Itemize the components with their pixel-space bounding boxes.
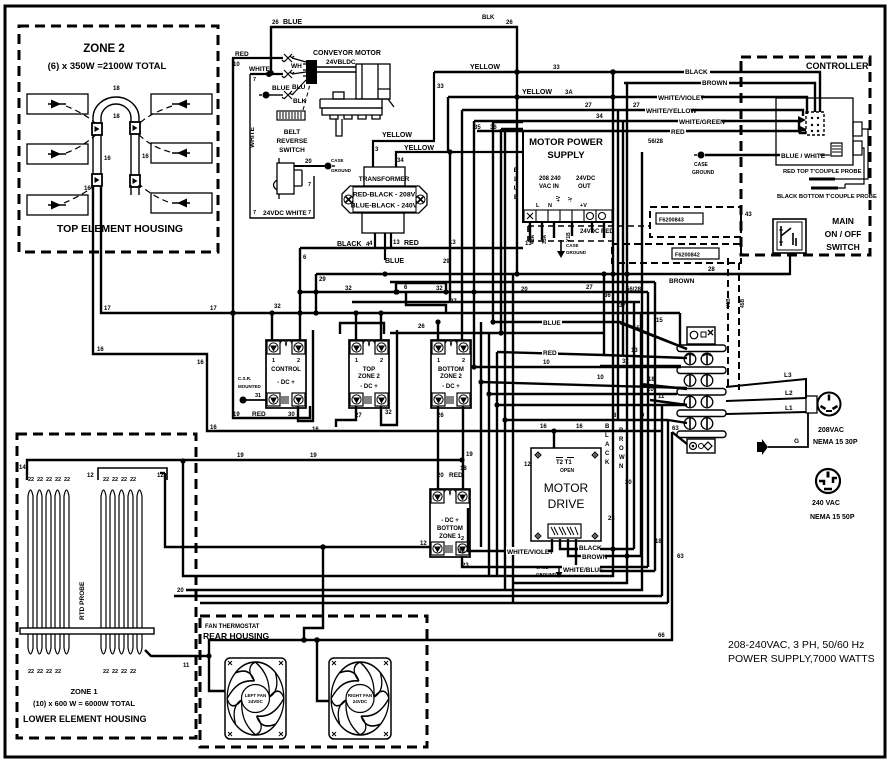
svg-text:F6200843: F6200843: [659, 218, 684, 224]
ground arrow ps: [560, 240, 562, 254]
svg-text:RED: RED: [543, 350, 557, 357]
svg-text:YELLOW: YELLOW: [470, 64, 500, 71]
svg-text:22: 22: [112, 669, 118, 675]
svg-text:22: 22: [55, 477, 61, 483]
svg-text:WHITE/BLUE: WHITE/BLUE: [563, 567, 604, 574]
svg-text:16: 16: [142, 154, 149, 160]
svg-text:63: 63: [677, 554, 684, 560]
svg-text:11: 11: [183, 663, 190, 669]
svg-text:ZONE 2: ZONE 2: [83, 43, 125, 55]
svg-text:18: 18: [460, 466, 467, 472]
motor power supply PS1: [523, 131, 613, 222]
svg-text:208VAC: 208VAC: [818, 427, 844, 434]
svg-text:16: 16: [97, 347, 104, 353]
svg-text:208 240: 208 240: [539, 176, 561, 182]
svg-text:N: N: [548, 203, 552, 209]
svg-text:24VDC RED: 24VDC RED: [580, 229, 614, 235]
svg-text:24VBLDC: 24VBLDC: [326, 59, 356, 66]
svg-text:16: 16: [540, 424, 547, 430]
svg-text:BLACK BOTTOM T'COUPLE PROBE: BLACK BOTTOM T'COUPLE PROBE: [777, 194, 877, 200]
svg-text:20: 20: [305, 159, 312, 165]
svg-text:BLACK: BLACK: [337, 241, 362, 248]
wire RED into contact: [232, 57, 283, 59]
motor connector block: [306, 60, 317, 84]
svg-text:35: 35: [474, 125, 481, 131]
svg-text:7: 7: [253, 77, 256, 83]
plug P2 240VAC NEMA 15 50P: [816, 469, 840, 493]
svg-text:RIGHT FAN: RIGHT FAN: [348, 693, 372, 698]
svg-text:34: 34: [397, 158, 404, 164]
svg-text:ZONE 2: ZONE 2: [440, 374, 462, 380]
svg-text:ZONE 1: ZONE 1: [439, 534, 461, 540]
wire WHITE into contact: [250, 73, 283, 75]
svg-text:GROUND: GROUND: [331, 168, 352, 173]
svg-text:BLUE: BLUE: [272, 85, 290, 92]
terminal bar 3: [677, 389, 726, 396]
terminal block feeds: [620, 323, 687, 349]
vertical bundle v1: [449, 152, 451, 302]
heating element E4: [151, 94, 212, 114]
terminal block bottom box: [687, 439, 715, 453]
svg-text:19: 19: [466, 452, 473, 458]
svg-text:17: 17: [210, 306, 217, 312]
svg-text:BLUE: BLUE: [543, 320, 561, 327]
svg-text:56/28: 56/28: [648, 139, 664, 145]
relay k3 bottom hooks: [438, 406, 463, 490]
svg-text:17: 17: [104, 306, 111, 312]
mps strip stubs: [530, 222, 572, 240]
wire switch to ground: [294, 165, 325, 167]
dashed route from PS: [528, 226, 650, 241]
svg-text:CONTROL: CONTROL: [271, 367, 301, 373]
svg-text:MOTOR: MOTOR: [544, 481, 589, 495]
wire 20 bottom: [174, 595, 662, 597]
svg-text:-V: -V: [568, 196, 574, 202]
transformer lead red: [390, 233, 392, 248]
svg-text:2: 2: [380, 358, 383, 364]
belt reverse switch label box (barcode): [277, 111, 305, 120]
main on/off switch S1: [773, 219, 806, 253]
svg-text:WHITE/GREEN: WHITE/GREEN: [679, 119, 725, 126]
belt reverse switch S2: [274, 158, 303, 199]
svg-text:GROUND: GROUND: [566, 250, 587, 255]
relay K3 BOTTOM ZONE 2: [431, 340, 471, 408]
right vertical bundle: [183, 72, 613, 576]
wire 26 BLUE top: [271, 27, 517, 274]
svg-text:24VDC: 24VDC: [353, 699, 368, 704]
bus y302: [352, 301, 640, 303]
wire pair connector to motor: [317, 67, 356, 72]
transformer lead blue: [384, 233, 386, 260]
svg-text:18: 18: [113, 86, 120, 92]
label BLUE / WHITE: [780, 150, 822, 159]
case ground dot conveyor: [325, 163, 332, 170]
svg-text:12: 12: [524, 462, 531, 468]
svg-text:37: 37: [619, 303, 626, 309]
svg-text:F6200842: F6200842: [675, 253, 700, 259]
wire T2 tap: [553, 431, 555, 448]
svg-text:27: 27: [585, 103, 592, 109]
wire zone2 left drop double: [93, 135, 101, 174]
relay K1 CONTROL: [266, 340, 306, 408]
svg-text:22: 22: [37, 669, 43, 675]
svg-text:BROWN: BROWN: [702, 80, 728, 87]
svg-text:L1: L1: [785, 405, 793, 412]
wire red y352: [497, 352, 687, 358]
svg-text:43: 43: [745, 212, 752, 218]
svg-text:29: 29: [443, 259, 450, 265]
controller connector J1: [806, 112, 824, 135]
transformer secondary yellow1: [373, 72, 434, 167]
transformer T1: [364, 167, 405, 186]
svg-text:- DC +: - DC +: [277, 380, 295, 386]
connector zone2 right lower: [130, 175, 140, 187]
svg-text:22: 22: [28, 669, 34, 675]
svg-text:RTD PROBE: RTD PROBE: [79, 581, 86, 620]
svg-text:29: 29: [319, 277, 326, 283]
connector zone2 right upper: [130, 122, 140, 134]
svg-text:24VDC: 24VDC: [248, 699, 263, 704]
svg-text:20: 20: [647, 387, 654, 393]
drive bottom terminal strip: [548, 524, 581, 538]
svg-text:SUPPLY: SUPPLY: [547, 150, 585, 161]
svg-text:22: 22: [103, 477, 109, 483]
thermocouple connector hatch: [831, 143, 842, 156]
svg-text:+V: +V: [580, 203, 587, 209]
bus y274 BROWN: [316, 273, 790, 275]
svg-text:18: 18: [113, 114, 120, 120]
rear housing enclosure: [200, 616, 427, 747]
wire yellow2 white/violet: [448, 97, 807, 152]
svg-text:1: 1: [355, 358, 358, 364]
wire 12 LEH: [160, 472, 165, 474]
svg-text:- DC +: - DC +: [360, 384, 378, 390]
svg-text:16: 16: [84, 186, 91, 192]
wire 17 zone2 right drop: [101, 186, 362, 313]
wire zone2 right drop short: [131, 185, 139, 195]
svg-text:C.S.R.: C.S.R.: [238, 376, 251, 381]
svg-text:2: 2: [461, 536, 464, 542]
svg-text:OPEN: OPEN: [560, 468, 575, 474]
svg-text:CASE: CASE: [536, 565, 549, 570]
blue/white lead: [820, 154, 830, 156]
svg-text:208-240VAC, 3 PH, 50/60 Hz: 208-240VAC, 3 PH, 50/60 Hz: [728, 639, 864, 651]
svg-text:32: 32: [622, 359, 629, 365]
svg-text:+V: +V: [556, 195, 562, 202]
terminal bar 4: [677, 410, 726, 417]
long horizontals to terminal block: [475, 366, 681, 368]
svg-text:BOTTOM: BOTTOM: [437, 526, 463, 532]
svg-text:BLUE: BLUE: [283, 19, 302, 26]
svg-text:BLUE-BLACK - 240V: BLUE-BLACK - 240V: [351, 203, 418, 210]
lower element housing enclosure: [17, 434, 196, 738]
svg-text:ON / OFF: ON / OFF: [825, 229, 862, 239]
connector zone2 left lower: [92, 174, 102, 186]
svg-text:28: 28: [708, 267, 715, 273]
svg-text:32: 32: [436, 286, 443, 292]
terminal bar 5: [677, 431, 726, 438]
svg-text:ZONE 1: ZONE 1: [70, 687, 97, 696]
svg-text:CONVEYOR MOTOR: CONVEYOR MOTOR: [313, 50, 381, 57]
svg-text:63: 63: [672, 426, 679, 432]
svg-text:22: 22: [121, 477, 127, 483]
svg-text:20: 20: [521, 287, 528, 293]
transformer secondary yellow2: [396, 152, 523, 167]
svg-text:1: 1: [272, 358, 275, 364]
wire 19 long: [27, 460, 462, 480]
svg-text:26: 26: [437, 413, 444, 419]
wire L1: [726, 412, 806, 414]
motor drive U2: [531, 448, 601, 541]
svg-text:26: 26: [506, 20, 513, 26]
relay k3 feeds: [437, 322, 439, 341]
heating rods zone1 right group: [101, 490, 142, 654]
element lead dashes E5: [137, 133, 170, 152]
svg-text:19: 19: [310, 453, 317, 459]
svg-text:LEFT FAN: LEFT FAN: [245, 693, 267, 698]
bus y333: [390, 332, 604, 334]
svg-text:7: 7: [308, 182, 311, 188]
connector dot blk: [263, 92, 270, 99]
svg-text:240 VAC: 240 VAC: [812, 500, 840, 507]
relay k2 feeds: [355, 313, 357, 341]
svg-text:RED TOP T'COUPLE PROBE: RED TOP T'COUPLE PROBE: [783, 169, 862, 175]
svg-text:LOWER ELEMENT HOUSING: LOWER ELEMENT HOUSING: [23, 714, 147, 724]
dashed lead to barcode: [303, 84, 310, 110]
svg-text:(6) x 350W =2100W TOTAL: (6) x 350W =2100W TOTAL: [48, 61, 167, 72]
connector zone2 left upper: [92, 123, 102, 135]
svg-text:20: 20: [177, 588, 184, 594]
heating element E1: [27, 94, 88, 114]
transformer primary lead black: [374, 233, 376, 248]
wire 11 LEH bottom: [145, 650, 209, 656]
dashed vertical Y1B: [727, 258, 729, 390]
svg-text:FAN THERMOSTAT: FAN THERMOSTAT: [205, 624, 260, 630]
svg-text:27: 27: [450, 299, 457, 305]
junction dot white: [266, 71, 272, 77]
wire G: [768, 413, 808, 447]
svg-text:19: 19: [237, 453, 244, 459]
controller enclosure: [741, 57, 870, 255]
svg-text:66: 66: [658, 633, 665, 639]
wire brown to controller: [624, 83, 815, 112]
svg-text:YELLOW: YELLOW: [382, 132, 412, 139]
svg-text:- DC +: - DC +: [441, 518, 459, 524]
relay k2 bottom hooks: [336, 330, 397, 427]
svg-text:36: 36: [604, 293, 611, 299]
RTD probe bar: [20, 628, 154, 634]
svg-text:12: 12: [87, 473, 94, 479]
wire red to controller: [477, 131, 806, 133]
element lead dashes E6: [137, 182, 168, 202]
bus y292: [300, 291, 648, 293]
svg-text:24VDC: 24VDC: [576, 176, 596, 182]
svg-text:SWITCH: SWITCH: [826, 242, 860, 252]
vertical bundle extensions: [480, 322, 482, 547]
wire labels mid: [97, 15, 715, 669]
svg-text:CASE: CASE: [694, 162, 709, 168]
relay k1 feeds: [271, 313, 273, 341]
svg-text:RED: RED: [404, 240, 419, 247]
zone2 arch wire: [93, 97, 139, 123]
svg-text:16: 16: [104, 156, 111, 162]
svg-text:10: 10: [543, 360, 550, 366]
svg-text:BROWN: BROWN: [669, 278, 695, 285]
svg-text:NEMA 15 50P: NEMA 15 50P: [810, 514, 855, 521]
controller tab 1: [853, 122, 862, 136]
relay K2 TOP ZONE 2: [349, 340, 389, 408]
svg-text:13: 13: [449, 240, 456, 246]
svg-text:(10) x 600 W = 6000W TOTAL: (10) x 600 W = 6000W TOTAL: [33, 699, 135, 708]
svg-text:22: 22: [130, 477, 136, 483]
fan left FAN1: [225, 658, 286, 739]
wire L2: [726, 398, 806, 401]
wire ground to K1: [243, 399, 267, 401]
svg-text:MAIN: MAIN: [832, 216, 854, 226]
ferrite 1 dashed: [650, 207, 741, 237]
bus y322 BLUE: [493, 322, 687, 349]
svg-text:1: 1: [437, 358, 440, 364]
svg-text:MOTOR POWER: MOTOR POWER: [529, 137, 603, 148]
wire switch to brown line: [700, 253, 790, 274]
element lead dashes E1: [66, 106, 102, 130]
transformer bottom box: [362, 213, 404, 233]
wire 16 zone2 left drop: [93, 186, 662, 431]
heating element E5: [151, 143, 212, 163]
svg-text:GROUND: GROUND: [536, 572, 557, 577]
terminal bar 2: [677, 367, 726, 374]
bus y248: [300, 247, 523, 249]
svg-text:22: 22: [121, 669, 127, 675]
wire blk stub: [268, 94, 283, 96]
contact X blue: [282, 70, 294, 78]
svg-text:WHITE: WHITE: [249, 126, 256, 148]
svg-text:18: 18: [648, 377, 655, 383]
svg-text:WHITE/VIOLET: WHITE/VIOLET: [507, 549, 553, 556]
svg-text:NEMA 15 30P: NEMA 15 30P: [813, 439, 858, 446]
svg-text:11: 11: [658, 394, 665, 400]
colour labels on lines with white bg: [506, 67, 729, 574]
contact X blk: [282, 91, 294, 99]
svg-text:33: 33: [553, 65, 560, 71]
svg-text:22: 22: [37, 477, 43, 483]
svg-text:27: 27: [633, 103, 640, 109]
svg-text:RED: RED: [671, 129, 685, 136]
element lead dashes E4: [133, 106, 172, 130]
svg-text:16: 16: [576, 424, 583, 430]
svg-text:VAC IN: VAC IN: [539, 184, 559, 190]
wire white/green: [474, 121, 806, 130]
fan right FAN2: [329, 658, 391, 739]
svg-text:27: 27: [586, 285, 593, 291]
svg-text:- DC +: - DC +: [442, 384, 460, 390]
wire white/yellow: [462, 110, 803, 116]
svg-text:2: 2: [462, 358, 465, 364]
svg-text:31: 31: [255, 393, 261, 399]
svg-text:14: 14: [19, 465, 26, 471]
svg-text:18: 18: [655, 539, 662, 545]
probe bar red: [809, 178, 835, 181]
heating rods zone1 left group: [28, 490, 69, 654]
svg-text:2: 2: [297, 358, 300, 364]
svg-text:RED-BLACK - 208V: RED-BLACK - 208V: [353, 192, 416, 199]
svg-text:BELT: BELT: [284, 129, 301, 136]
k2 bridge: [340, 323, 384, 334]
relay K4 BOTTOM ZONE 1: [430, 489, 470, 557]
svg-text:22: 22: [130, 669, 136, 675]
svg-text:13: 13: [525, 241, 532, 247]
svg-text:24VDC WHITE: 24VDC WHITE: [263, 210, 307, 217]
controller unit U1: [776, 98, 853, 165]
svg-text:3A: 3A: [565, 90, 573, 96]
motor drive bottom wires: [468, 508, 552, 551]
svg-text:22: 22: [64, 477, 70, 483]
svg-text:16: 16: [312, 427, 319, 433]
svg-text:MOUNTED: MOUNTED: [238, 384, 261, 389]
plug connector stub: [806, 396, 817, 413]
bus y313 right: [362, 312, 680, 314]
controller tab 2: [853, 141, 862, 155]
svg-text:BLACK: BLACK: [579, 545, 602, 552]
wire zone2 left drop to box edge: [93, 186, 101, 312]
svg-text:OUT: OUT: [578, 184, 591, 190]
wire zone2 right drop double: [131, 134, 139, 175]
transformer mount right: [416, 195, 425, 204]
svg-text:22: 22: [46, 669, 52, 675]
svg-text:YELLOW: YELLOW: [404, 145, 434, 152]
svg-text:BLUE / WHITE: BLUE / WHITE: [781, 153, 826, 160]
svg-text:32: 32: [274, 304, 281, 310]
conveyor motor body: [320, 64, 394, 136]
svg-text:RED: RED: [449, 472, 463, 479]
svg-text:BLK: BLK: [482, 15, 495, 21]
rear housing feeds: [304, 547, 323, 640]
svg-text:DRIVE: DRIVE: [548, 497, 585, 511]
svg-text:CASE: CASE: [566, 243, 579, 248]
svg-text:T2 T1: T2 T1: [556, 460, 572, 466]
drive corner screws: [535, 452, 598, 539]
relay k4 bottom wires: [165, 473, 431, 547]
svg-text:23: 23: [608, 516, 615, 522]
relay k1 bottom hook: [298, 330, 313, 421]
terminal pair row 2: [684, 375, 696, 387]
svg-text:CONTROLLER: CONTROLLER: [806, 61, 869, 71]
svg-text:22: 22: [28, 477, 34, 483]
svg-text:BLK: BLK: [293, 98, 307, 105]
svg-text:15: 15: [633, 326, 640, 332]
svg-text:26: 26: [272, 20, 279, 26]
svg-text:26: 26: [418, 324, 425, 330]
svg-text:BLUE: BLUE: [385, 258, 404, 265]
svg-text:10: 10: [597, 375, 604, 381]
svg-text:20: 20: [625, 480, 632, 486]
heating element E2: [27, 144, 88, 164]
svg-text:YELLOW: YELLOW: [522, 89, 552, 96]
svg-text:32: 32: [385, 410, 392, 416]
svg-text:22: 22: [46, 477, 52, 483]
svg-text:WHITE/YELLOW: WHITE/YELLOW: [646, 108, 697, 115]
svg-text:16: 16: [210, 425, 217, 431]
wire 10 red vertical: [233, 58, 310, 418]
svg-text:BROWN: BROWN: [582, 554, 608, 561]
svg-text:33: 33: [437, 84, 444, 90]
svg-text:TOP ELEMENT HOUSING: TOP ELEMENT HOUSING: [57, 223, 183, 235]
ground symbol G: [757, 439, 768, 455]
PS terminal strip: [524, 210, 612, 222]
svg-text:Y1B: Y1B: [726, 298, 732, 308]
plug P1 208VAC NEMA 15 30P: [818, 393, 841, 416]
svg-text:22: 22: [55, 669, 61, 675]
